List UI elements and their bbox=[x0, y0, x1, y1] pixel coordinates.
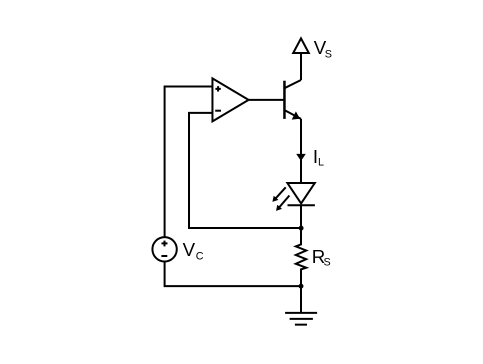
svg-text:S: S bbox=[325, 49, 332, 61]
svg-text:C: C bbox=[196, 250, 204, 262]
svg-text:S: S bbox=[324, 257, 331, 269]
svg-text:L: L bbox=[318, 157, 324, 169]
svg-text:V: V bbox=[183, 239, 196, 260]
